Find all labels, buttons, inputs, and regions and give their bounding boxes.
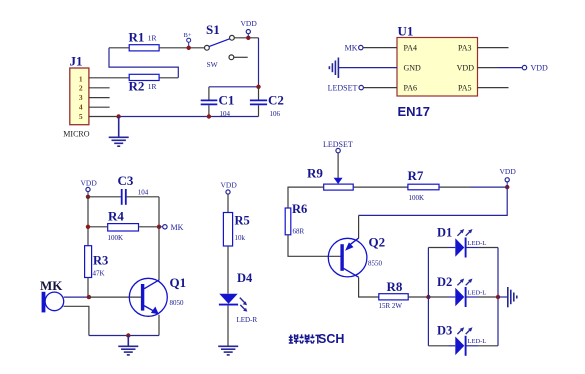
resistor R3 [85, 246, 109, 278]
svg-text:R9: R9 [307, 166, 323, 181]
svg-text:GND: GND [404, 63, 422, 72]
wire mic bottom down and along [64, 306, 89, 335]
junction dot B+ [187, 46, 191, 50]
wire LED cathode bus [497, 248, 499, 346]
wire R8 right to LED bus [408, 296, 428, 298]
svg-text:VDD: VDD [241, 19, 258, 28]
wire LED anode bus [427, 248, 429, 346]
svg-text:VDD: VDD [531, 64, 549, 73]
wire R5 to D4 [227, 246, 229, 294]
wire J1 pin5 to ground junction [89, 116, 119, 118]
svg-text:LED-L: LED-L [468, 289, 487, 296]
svg-text:1: 1 [79, 74, 83, 83]
junction dot VDD Q1 stage [86, 195, 90, 199]
svg-text:VDD: VDD [221, 181, 238, 190]
power VDD at S1 [241, 19, 258, 38]
svg-text:R1: R1 [129, 29, 145, 44]
transistor Q2 [328, 234, 385, 277]
svg-text:104: 104 [220, 110, 231, 118]
svg-text:PA5: PA5 [458, 83, 472, 92]
node MK at R4 [159, 223, 184, 232]
junction dot cathode bus [496, 295, 500, 299]
wire C3 right to collector column [127, 196, 159, 198]
resistor R1 [129, 29, 160, 51]
svg-text:MICRO: MICRO [63, 129, 89, 138]
svg-text:R6: R6 [292, 202, 307, 216]
svg-text:S1: S1 [206, 22, 220, 37]
wire cap top run [209, 86, 259, 88]
svg-text:5: 5 [79, 112, 83, 121]
resistor R5 [223, 213, 249, 247]
wire GND net bottom run to C1 C2 [119, 116, 259, 118]
svg-text:10k: 10k [235, 234, 246, 242]
LED D3 [428, 324, 498, 356]
wire D4 to ground [227, 306, 229, 347]
node LEDSET at U1 [328, 84, 364, 93]
svg-text:D4: D4 [237, 271, 253, 285]
wire right column to Q1 collector [158, 197, 160, 280]
wire emitter bottom run [89, 335, 159, 337]
wire PA5 stub [478, 87, 509, 89]
junction dot at VDD S1 [246, 36, 250, 40]
wire S1 common to VDD corner [234, 37, 258, 39]
power VDD at Q1 stage [81, 179, 98, 197]
resistor R8 [379, 279, 409, 310]
svg-text:8050: 8050 [170, 299, 185, 307]
svg-text:MK: MK [40, 278, 63, 293]
svg-text:SW: SW [207, 60, 219, 69]
power VDD at R5 [221, 181, 238, 213]
wiper arrow R9 [334, 178, 343, 184]
svg-text:VDD: VDD [457, 63, 475, 72]
capacitor C2 [250, 87, 284, 118]
LED D1 [428, 225, 498, 257]
wire mic top to base junction [64, 296, 89, 298]
power VDD at U1 [522, 64, 548, 73]
wire J1 pin3 stub [89, 97, 110, 99]
junction dot LED bus left [426, 295, 430, 299]
svg-text:100K: 100K [108, 234, 124, 242]
transistor Q1 [129, 275, 186, 317]
svg-text:106: 106 [270, 110, 281, 118]
LED D4 [219, 271, 258, 324]
wire LEDSET wiper [337, 153, 339, 179]
power VDD right [500, 167, 517, 187]
microphone MK [40, 278, 64, 313]
wire J1 pin2 stub [89, 87, 110, 89]
svg-text:LED-L: LED-L [468, 338, 487, 345]
node MK at U1 [345, 44, 363, 53]
junction dot VDD right [505, 185, 509, 189]
wire R7 right to VDD [439, 186, 507, 188]
junction dot cap top [256, 85, 260, 89]
resistor R6 [285, 202, 307, 235]
svg-text:4: 4 [79, 103, 83, 112]
svg-text:1R: 1R [148, 34, 157, 43]
junction dot emitter ground [126, 333, 130, 337]
svg-text:MK: MK [171, 223, 184, 232]
svg-text:C1: C1 [219, 93, 235, 108]
svg-text:LED-R: LED-R [237, 316, 258, 324]
svg-text:D1: D1 [437, 225, 452, 239]
wire VDD rail down to caps [258, 38, 260, 87]
wire R1 left lead [109, 47, 129, 49]
capacitor C3 [118, 173, 149, 205]
svg-text:PA6: PA6 [404, 83, 418, 92]
svg-text:100K: 100K [409, 194, 425, 202]
resistor R7 [408, 168, 440, 202]
wire U1 VDD pin [478, 67, 523, 69]
IC U1 [397, 24, 478, 97]
resistor R4 [88, 209, 159, 242]
junction dot C1 bottom [207, 114, 211, 118]
wire R2 right lead [159, 77, 178, 79]
svg-text:SCH: SCH [318, 332, 344, 346]
wire loop R1 left to R2 right [109, 48, 178, 78]
svg-text:EN17: EN17 [398, 104, 431, 119]
wire J1 pin4 stub [89, 106, 110, 108]
wire left column VDD to R4 R3 [87, 197, 89, 246]
svg-text:R8: R8 [387, 279, 403, 294]
wire VDD to Q2 emitter [359, 187, 508, 215]
title 蜡烛灯SCH [289, 332, 345, 346]
wire R9 left to R6 top [288, 187, 324, 208]
wire MK to PA4 [363, 47, 397, 49]
J1 pin numbers 1-5 [79, 74, 83, 121]
wire Q2 collector to R8 [359, 277, 379, 297]
svg-text:VDD: VDD [500, 167, 517, 176]
svg-text:1R: 1R [148, 82, 157, 91]
svg-text:D3: D3 [437, 324, 452, 338]
svg-text:PA4: PA4 [404, 43, 418, 52]
junction dot R4 right [157, 225, 161, 229]
wire GND pin to ground [338, 67, 397, 69]
node B+ [184, 32, 192, 48]
svg-text:47K: 47K [93, 270, 105, 278]
svg-text:R4: R4 [108, 209, 124, 224]
wire Q1 emitter down [158, 315, 160, 336]
capacitor C1 [201, 87, 235, 118]
svg-text:MK: MK [345, 44, 358, 53]
resistor R2 [129, 74, 160, 93]
svg-text:PA3: PA3 [458, 43, 472, 52]
svg-text:J1: J1 [70, 53, 83, 68]
wire R3 bottom to base junction [87, 278, 89, 298]
svg-text:R3: R3 [93, 254, 108, 268]
svg-text:104: 104 [138, 188, 149, 196]
connector J1 [70, 53, 89, 124]
potentiometer R9 [307, 166, 353, 190]
junction dot base [87, 295, 91, 299]
svg-text:Q2: Q2 [369, 234, 386, 249]
svg-text:15R 2W: 15R 2W [379, 302, 403, 310]
LED D2 [428, 275, 498, 307]
svg-text:2: 2 [79, 83, 83, 92]
wire R6 bottom to Q2 base [288, 235, 341, 256]
wire LEDSET to PA6 [363, 87, 397, 89]
svg-text:R5: R5 [235, 213, 250, 227]
svg-text:VDD: VDD [81, 179, 98, 188]
svg-text:R2: R2 [129, 79, 145, 94]
junction dot R4 left [86, 225, 90, 229]
ground symbol under J1 [109, 117, 129, 147]
switch S1 [205, 22, 235, 50]
svg-text:68R: 68R [293, 227, 305, 235]
node LEDSET at R9 [323, 140, 353, 153]
wire R1 right to switch [159, 47, 205, 49]
svg-text:3: 3 [79, 93, 83, 102]
switch SW unused contact [207, 55, 248, 69]
ground symbol at U1 GND (sideways) [329, 58, 338, 79]
svg-text:C2: C2 [268, 93, 284, 108]
ground symbol under Q1 [118, 336, 138, 355]
svg-text:D2: D2 [437, 275, 452, 289]
wire PA3 stub [478, 47, 509, 49]
svg-text:B+: B+ [184, 32, 192, 39]
U1 pin names [404, 43, 475, 92]
wire cathode to ground [498, 296, 508, 298]
wire base junction to Q1 base [89, 296, 141, 298]
ground symbol right of LEDs (sideways) [508, 287, 517, 307]
svg-text:R7: R7 [408, 168, 424, 183]
svg-text:LEDSET: LEDSET [328, 84, 358, 93]
wire R9 right to R7 left [353, 186, 408, 188]
ground symbol under D4 [218, 346, 238, 355]
junction dot pin5 ground [116, 114, 120, 118]
svg-text:C3: C3 [118, 173, 134, 188]
wire J1 pin1 to R2 [89, 77, 129, 79]
svg-text:LED-L: LED-L [468, 240, 487, 247]
svg-text:Q1: Q1 [170, 275, 187, 290]
svg-text:U1: U1 [398, 24, 414, 39]
wire VDD to C3 left [88, 196, 121, 198]
svg-text:8550: 8550 [368, 260, 383, 268]
